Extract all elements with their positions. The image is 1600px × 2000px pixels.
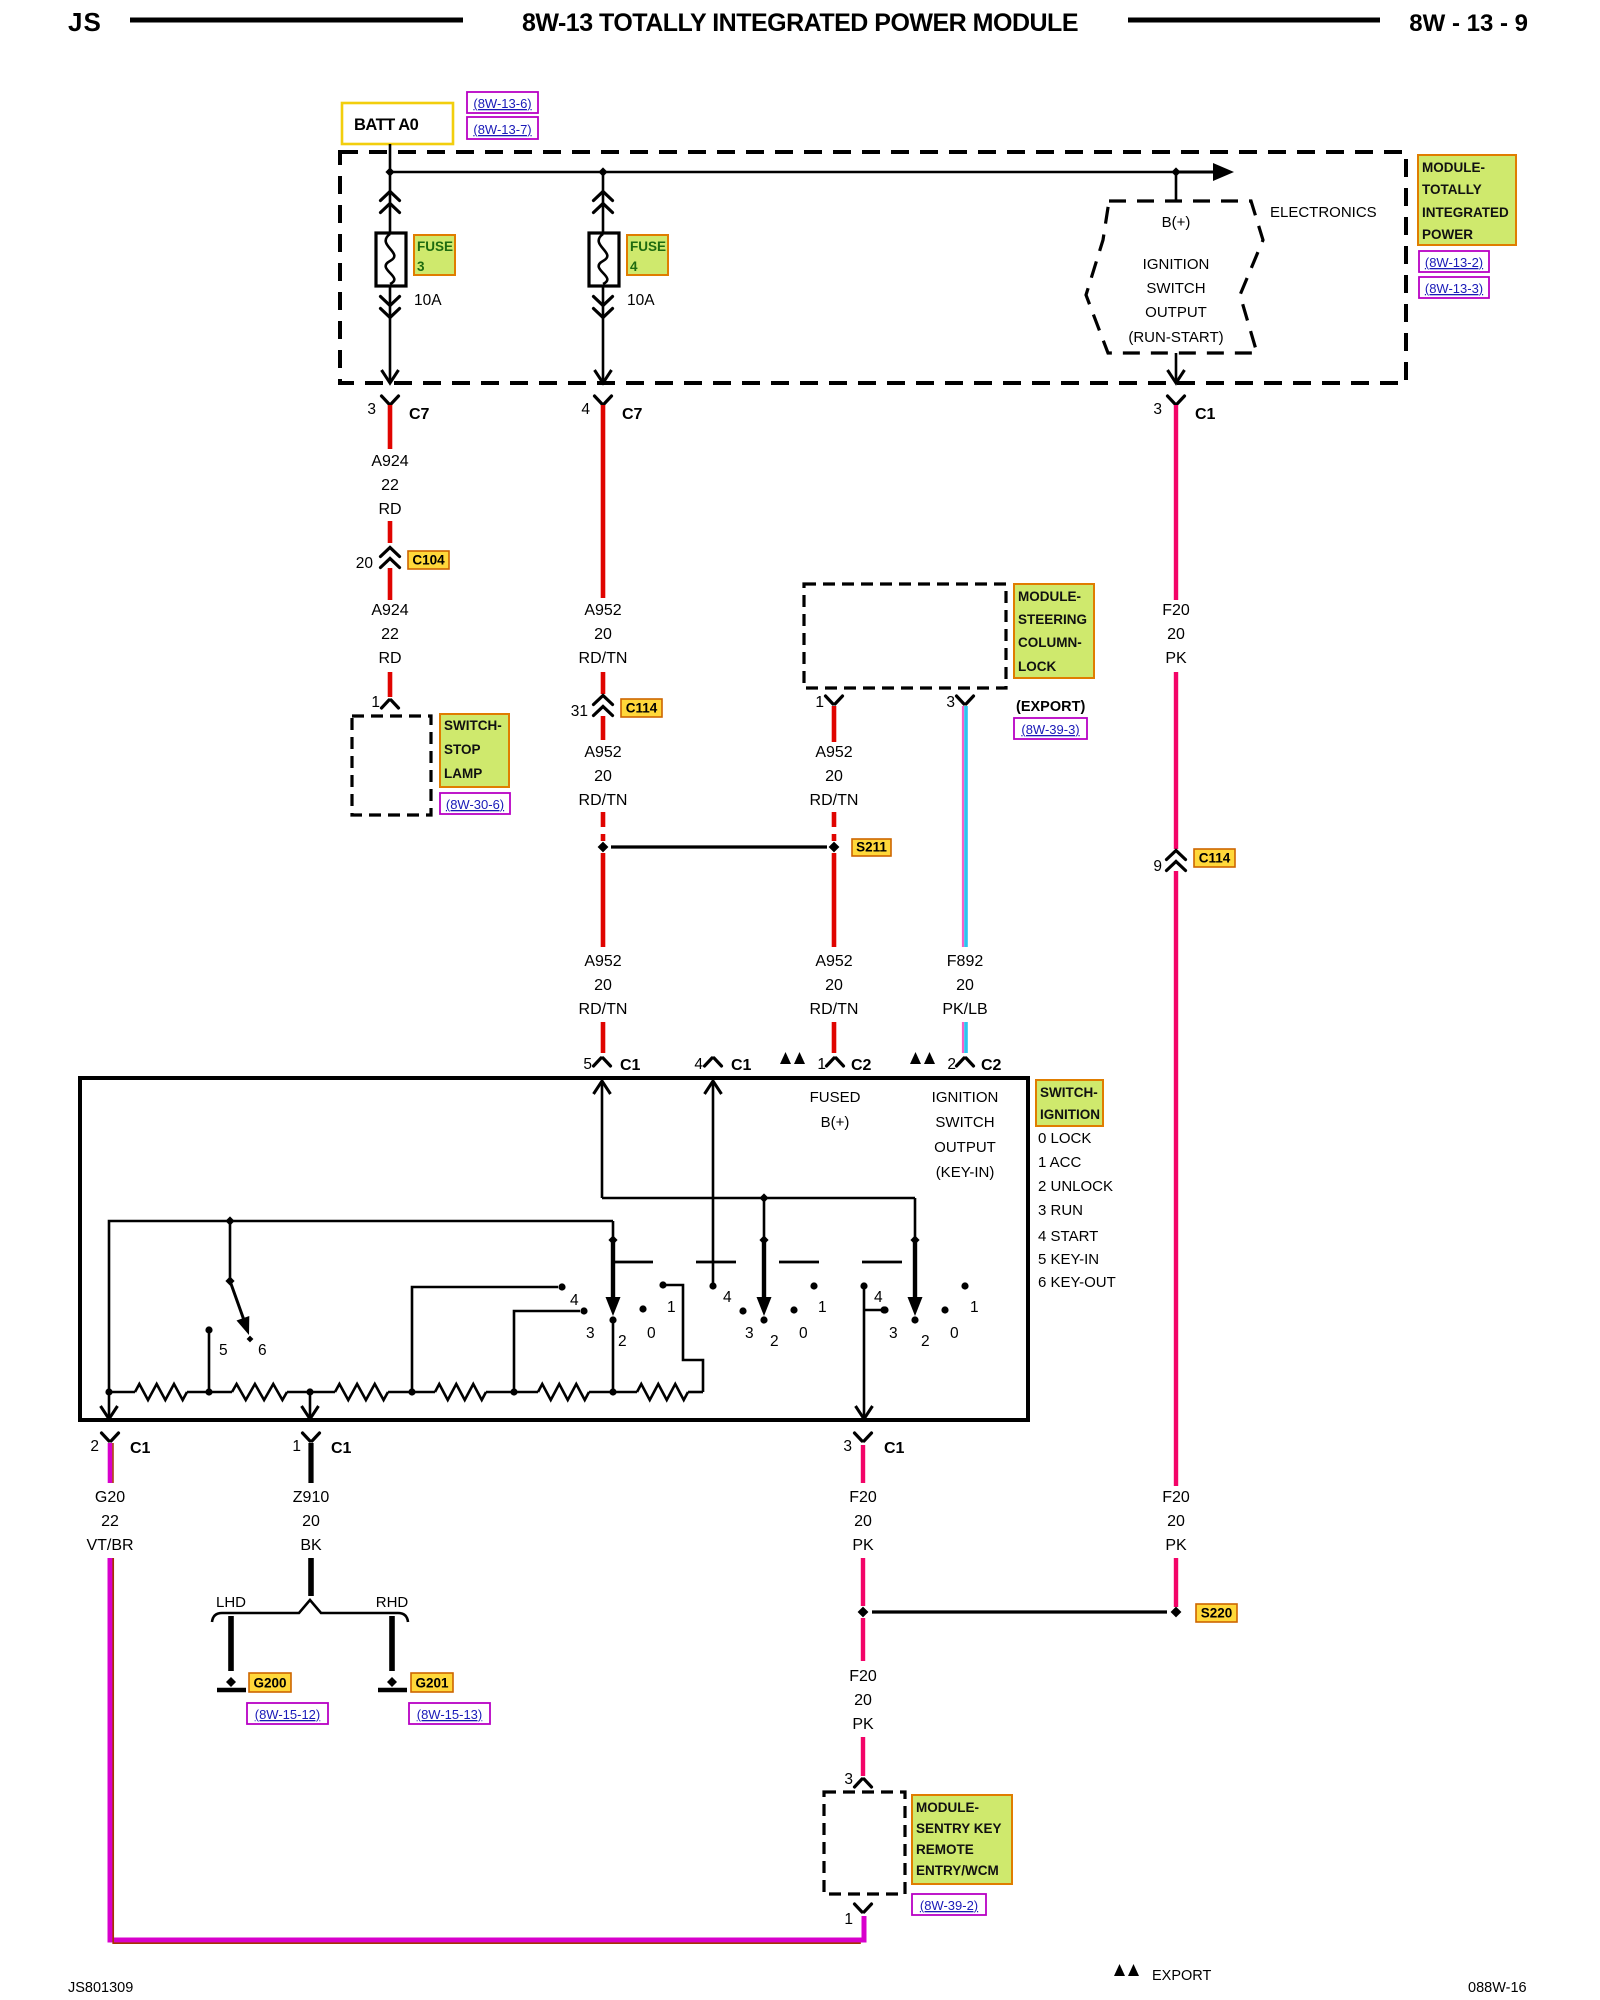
connector chevrons below fuse 3 [381, 297, 400, 306]
svg-text:088W-16: 088W-16 [1468, 1980, 1527, 1996]
svg-text:1: 1 [371, 694, 380, 711]
svg-text:0: 0 [647, 1325, 656, 1342]
svg-text:1: 1 [667, 1299, 676, 1316]
node chain junctions [105, 1388, 112, 1395]
svg-text:2: 2 [947, 1056, 956, 1073]
wire A952 steering to S211 [832, 812, 837, 827]
svg-text:BATT A0: BATT A0 [354, 116, 419, 134]
wire F892 20 PK/LB [962, 706, 964, 947]
svg-text:POWER: POWER [1422, 227, 1473, 242]
wire BATT A0 feed into TIPM [389, 144, 392, 172]
svg-text:FUSED: FUSED [810, 1089, 861, 1106]
svg-text:6 KEY-OUT: 6 KEY-OUT [1038, 1274, 1116, 1291]
splice S211 [598, 842, 609, 853]
svg-text:F20: F20 [1162, 602, 1190, 619]
svg-text:22: 22 [381, 477, 399, 494]
svg-text:Z910: Z910 [293, 1489, 330, 1506]
svg-text:3: 3 [586, 1325, 595, 1342]
wire fuse 3 to C7 pin 3 [389, 286, 392, 381]
svg-text:ENTRY/WCM: ENTRY/WCM [916, 1863, 999, 1878]
svg-text:3: 3 [843, 1438, 852, 1455]
wire pin4 to start contact [712, 1082, 715, 1286]
svg-text:C1: C1 [731, 1057, 752, 1074]
link 8W-15-13 [409, 1703, 490, 1724]
wire A952 below C114 [601, 716, 606, 740]
svg-text:1: 1 [970, 1299, 979, 1316]
svg-text:20: 20 [594, 977, 612, 994]
svg-text:SWITCH-: SWITCH- [1040, 1085, 1098, 1100]
svg-text:4: 4 [723, 1289, 732, 1306]
svg-text:COLUMN-: COLUMN- [1018, 635, 1082, 650]
svg-text:F20: F20 [1162, 1489, 1190, 1506]
ground G200 [226, 1677, 236, 1687]
svg-text:3: 3 [946, 694, 955, 711]
svg-text:(8W-13-2): (8W-13-2) [1425, 255, 1483, 270]
svg-text:C1: C1 [1195, 406, 1216, 423]
svg-text:RD/TN: RD/TN [810, 792, 859, 809]
module TIPM dashed outline [340, 152, 1406, 383]
module sentry key dashed outline [824, 1792, 905, 1894]
svg-text:C1: C1 [130, 1440, 151, 1457]
wire F20 stub below C1 pin 3 [861, 1445, 865, 1483]
svg-text:10A: 10A [627, 292, 655, 309]
svg-text:1 ACC: 1 ACC [1038, 1154, 1082, 1171]
wire bus to fuse 4 [602, 172, 605, 233]
wire G20 stub [108, 1443, 113, 1483]
svg-text:4: 4 [694, 1056, 703, 1073]
switch bank 1 contact 3 [514, 1311, 580, 1392]
svg-text:1: 1 [292, 1438, 301, 1455]
svg-text:PK/LB: PK/LB [942, 1001, 987, 1018]
svg-text:A952: A952 [584, 953, 621, 970]
svg-text:RD: RD [378, 650, 401, 667]
svg-text:G201: G201 [415, 1676, 449, 1691]
fuse F4 [589, 233, 619, 286]
svg-text:20: 20 [825, 768, 843, 785]
wire F20 20 PK from TIPM C1 pin 3 [1174, 405, 1178, 600]
svg-text:VT/BR: VT/BR [86, 1537, 133, 1554]
label FUSE 4 [627, 235, 668, 275]
svg-text:C2: C2 [981, 1057, 1002, 1074]
svg-text:20: 20 [594, 768, 612, 785]
svg-text:A952: A952 [584, 744, 621, 761]
wire Z910 down to split [308, 1558, 314, 1596]
svg-text:A952: A952 [815, 953, 852, 970]
resistor R3 [335, 1384, 388, 1400]
svg-text:10A: 10A [414, 292, 442, 309]
svg-text:A924: A924 [371, 453, 408, 470]
resistor R6 [637, 1384, 688, 1400]
wire F20 to splice S220 [861, 1558, 865, 1606]
switch bank 1 contact 4 [412, 1287, 558, 1392]
wire RHD ground leg [389, 1616, 395, 1671]
svg-text:STEERING: STEERING [1018, 612, 1087, 627]
connector ignition switch C2 pin 2 [910, 1052, 921, 1064]
wire A952 above C2 pin 1 [832, 1022, 837, 1053]
wire A952 to splice S211 [601, 812, 606, 827]
resistor R4 [435, 1384, 486, 1400]
svg-text:JS801309: JS801309 [68, 1980, 133, 1996]
wire LHD ground leg [228, 1616, 234, 1671]
svg-text:EXPORT: EXPORT [1152, 1968, 1212, 1984]
svg-text:20: 20 [594, 626, 612, 643]
wire F20 stub to S220 right [1174, 1558, 1178, 1607]
label MODULE-STEERING COLUMN-LOCK [1014, 584, 1094, 678]
switch bank 3 contact 4 [860, 1282, 867, 1289]
switch bank 2 contact 3 [739, 1307, 746, 1314]
module TIPM label [1418, 155, 1516, 245]
svg-text:(KEY-IN): (KEY-IN) [936, 1164, 995, 1181]
header rule right [1128, 18, 1380, 23]
svg-text:2 UNLOCK: 2 UNLOCK [1038, 1178, 1113, 1195]
label FUSE 3 [414, 235, 455, 275]
link 8W-13-3 [1419, 277, 1489, 298]
svg-text:(8W-15-13): (8W-15-13) [417, 1707, 483, 1722]
module steering column lock dashed outline [804, 584, 1006, 688]
connector chevrons above fuse 3 [381, 192, 400, 201]
svg-text:8W-13 TOTALLY INTEGRATED POWER: 8W-13 TOTALLY INTEGRATED POWER MODULE [522, 9, 1078, 37]
switch stop lamp dashed outline [352, 716, 431, 815]
link 8W-39-2 [912, 1894, 986, 1915]
svg-text:PK: PK [852, 1537, 874, 1554]
connector ignition switch C2 pin 1 [780, 1052, 791, 1064]
label SWITCH-STOP LAMP [440, 714, 509, 787]
svg-text:(8W-13-7): (8W-13-7) [473, 122, 531, 137]
key-in switch contact 5 [208, 1332, 211, 1392]
resistor chain rail [109, 1391, 135, 1394]
svg-text:20: 20 [825, 977, 843, 994]
svg-text:REMOTE: REMOTE [916, 1842, 974, 1857]
connector chevrons below fuse 4 [594, 297, 613, 306]
svg-text:(8W-13-6): (8W-13-6) [473, 96, 531, 111]
wire G20 long run to sentry key module [110, 1558, 864, 1940]
svg-text:F20: F20 [849, 1668, 877, 1685]
svg-text:PK: PK [852, 1716, 874, 1733]
svg-text:20: 20 [356, 555, 374, 572]
svg-text:C2: C2 [851, 1057, 872, 1074]
link 8W-15-12 [247, 1703, 328, 1724]
svg-text:RD/TN: RD/TN [579, 1001, 628, 1018]
svg-text:B(+): B(+) [821, 1114, 850, 1131]
switch bank 3 contact 3 [881, 1306, 888, 1313]
connector C114 inline pin 9 [1167, 851, 1186, 860]
resistor R5 [538, 1384, 589, 1400]
label SWITCH-IGNITION [1036, 1080, 1103, 1126]
header rule left [130, 18, 463, 23]
svg-text:C1: C1 [331, 1440, 352, 1457]
wire ignition common rail [109, 1221, 613, 1392]
svg-text:PK: PK [1165, 650, 1187, 667]
svg-text:LOCK: LOCK [1018, 659, 1056, 674]
svg-text:1: 1 [815, 694, 824, 711]
svg-text:4: 4 [630, 259, 638, 274]
wire bank1 contact 1 to resistor chain [663, 1285, 703, 1392]
wire A952 above C114 [601, 672, 606, 694]
svg-text:1: 1 [818, 1299, 827, 1316]
svg-text:(8W-15-12): (8W-15-12) [255, 1707, 321, 1722]
svg-text:20: 20 [302, 1513, 320, 1530]
wire F20 long segment to S220 [1174, 871, 1178, 1486]
wire bus to fuse 3 [389, 172, 392, 233]
switch bank 1 blade [612, 1221, 615, 1238]
svg-text:(8W-30-6): (8W-30-6) [446, 797, 504, 812]
svg-text:C104: C104 [412, 553, 445, 568]
wire output pin 1 C1 [309, 1392, 312, 1417]
wire F892 above C2 pin 2 [962, 1022, 964, 1053]
switch bank 3 contact 1 [961, 1282, 968, 1289]
svg-text:TOTALLY: TOTALLY [1422, 182, 1482, 197]
node key-in rail junction [759, 1193, 768, 1202]
svg-text:ELECTRONICS: ELECTRONICS [1270, 204, 1377, 221]
svg-text:B(+): B(+) [1162, 214, 1191, 231]
svg-text:SENTRY KEY: SENTRY KEY [916, 1821, 1002, 1836]
svg-text:3: 3 [889, 1325, 898, 1342]
bus arrow to electronics feed [1176, 171, 1214, 174]
svg-text:20: 20 [854, 1692, 872, 1709]
svg-text:OUTPUT: OUTPUT [1145, 304, 1207, 321]
node common rail junction key switch [225, 1216, 234, 1225]
svg-text:(8W-39-3): (8W-39-3) [1021, 722, 1079, 737]
svg-text:F892: F892 [947, 953, 984, 970]
svg-text:S220: S220 [1201, 1606, 1233, 1621]
svg-text:INTEGRATED: INTEGRATED [1422, 205, 1509, 220]
wire bus to electronics block [1175, 172, 1178, 200]
wire F20 long segment to C114 [1174, 672, 1178, 849]
resistor R2 [232, 1384, 287, 1400]
svg-text:G200: G200 [253, 1676, 286, 1691]
wire A924 below C104 [388, 568, 393, 600]
battery feed BATT A0 [342, 103, 453, 144]
svg-text:MODULE-: MODULE- [1018, 589, 1081, 604]
svg-text:4: 4 [581, 401, 590, 418]
svg-text:C114: C114 [1199, 851, 1231, 866]
svg-text:JS: JS [68, 7, 102, 37]
svg-text:IGNITION: IGNITION [932, 1089, 999, 1106]
wire A952 from C7 pin 4 [601, 405, 606, 598]
svg-text:STOP: STOP [444, 742, 481, 757]
svg-text:0 LOCK: 0 LOCK [1038, 1130, 1091, 1147]
node bus junction electronics [1171, 167, 1180, 176]
svg-text:BK: BK [300, 1537, 322, 1554]
switch bank 1 contact 1 [659, 1281, 666, 1288]
node bus junction fuse 4 [598, 167, 607, 176]
wire F20 below S220 [861, 1618, 865, 1661]
wire A924 22 RD upper segment [388, 405, 393, 449]
node bus junction fuse 3 [385, 167, 394, 176]
svg-text:IGNITION: IGNITION [1040, 1107, 1100, 1122]
svg-text:A952: A952 [815, 744, 852, 761]
link 8W-13-2 [1419, 251, 1489, 272]
svg-text:5 KEY-IN: 5 KEY-IN [1038, 1251, 1099, 1268]
svg-text:20: 20 [1167, 1513, 1185, 1530]
fuse F3 [376, 233, 406, 286]
switch bank 2 blade [763, 1198, 766, 1238]
wire key-in feed rail [602, 1197, 915, 1200]
switch bank 1 contact 0 [639, 1305, 646, 1312]
svg-text:3: 3 [844, 1771, 853, 1788]
svg-text:20: 20 [1167, 626, 1185, 643]
svg-text:S211: S211 [856, 840, 887, 855]
wire battery bus horizontal [390, 171, 1176, 174]
svg-text:5: 5 [219, 1342, 228, 1359]
svg-text:F20: F20 [849, 1489, 877, 1506]
wire electronics block to C1 pin 3 [1175, 353, 1178, 381]
svg-text:8W - 13 - 9: 8W - 13 - 9 [1409, 10, 1528, 37]
switch bank 2 contact 1 [810, 1282, 817, 1289]
svg-text:2: 2 [618, 1333, 627, 1350]
electronics ignition switch output block dashed outline [1086, 201, 1263, 353]
svg-text:(EXPORT): (EXPORT) [1016, 699, 1085, 715]
svg-text:9: 9 [1153, 858, 1162, 875]
svg-text:IGNITION: IGNITION [1143, 256, 1210, 273]
wire A952 S211 to C2 pin 1 [832, 853, 837, 947]
svg-text:3: 3 [1153, 401, 1162, 418]
svg-text:4: 4 [874, 1289, 883, 1306]
wire A924 to stop lamp switch [388, 672, 393, 697]
resistor R1 [135, 1384, 187, 1400]
svg-text:C1: C1 [884, 1440, 905, 1457]
svg-text:RHD: RHD [376, 1594, 409, 1611]
svg-text:1: 1 [844, 1911, 853, 1928]
svg-text:3: 3 [367, 401, 376, 418]
svg-text:G20: G20 [95, 1489, 125, 1506]
wire F20 to sentry key module [861, 1737, 865, 1776]
svg-text:20: 20 [956, 977, 974, 994]
wire A924 mid segment [388, 521, 393, 543]
svg-text:4: 4 [570, 1292, 579, 1309]
svg-text:RD/TN: RD/TN [810, 1001, 859, 1018]
svg-text:SWITCH-: SWITCH- [444, 718, 502, 733]
wire A952 below S211 to switch [601, 853, 606, 947]
svg-text:2: 2 [770, 1333, 779, 1350]
wire A952 from steering lock pin 1 [832, 706, 837, 742]
svg-text:22: 22 [381, 626, 399, 643]
wire A952 to ignition switch C1 pin 5 [601, 1022, 606, 1053]
switch bank 3 blade [914, 1198, 917, 1238]
svg-text:C114: C114 [626, 701, 658, 716]
LHD RHD split brace [212, 1600, 408, 1622]
link 8W-30-6 [440, 793, 510, 814]
svg-text:MODULE-: MODULE- [916, 1800, 979, 1815]
svg-text:SWITCH: SWITCH [1146, 280, 1205, 297]
link 8W-39-3 [1014, 718, 1087, 739]
svg-text:PK: PK [1165, 1537, 1187, 1554]
label MODULE-SENTRY KEY REMOTE ENTRY/WCM [912, 1795, 1012, 1884]
svg-text:SWITCH: SWITCH [935, 1114, 994, 1131]
svg-text:RD: RD [378, 501, 401, 518]
splice S220 [858, 1607, 869, 1618]
svg-text:(RUN-START): (RUN-START) [1128, 329, 1223, 346]
switch bank 3 contact 0 [941, 1306, 948, 1313]
svg-text:0: 0 [950, 1325, 959, 1342]
switch ignition box outline [80, 1078, 1028, 1420]
svg-text:22: 22 [101, 1513, 119, 1530]
wire output pin 2 C1 [108, 1392, 111, 1417]
ground G201 [387, 1677, 397, 1687]
svg-text:5: 5 [583, 1056, 592, 1073]
svg-text:2: 2 [921, 1333, 930, 1350]
svg-text:3: 3 [417, 259, 425, 274]
svg-text:RD/TN: RD/TN [579, 650, 628, 667]
svg-text:31: 31 [571, 703, 588, 720]
svg-text:MODULE-: MODULE- [1422, 160, 1485, 175]
svg-text:(8W-13-3): (8W-13-3) [1425, 281, 1483, 296]
svg-text:C7: C7 [409, 406, 430, 423]
connector C104 inline [381, 548, 400, 557]
svg-text:(8W-39-2): (8W-39-2) [920, 1898, 978, 1913]
switch bank 2 contact 0 [790, 1306, 797, 1313]
svg-text:20: 20 [854, 1513, 872, 1530]
svg-text:6: 6 [258, 1342, 267, 1359]
wire pin5 feed with up arrow [601, 1082, 604, 1198]
svg-text:FUSE: FUSE [630, 239, 666, 254]
wire fuse 4 to C7 pin 4 [602, 286, 605, 381]
svg-text:RD/TN: RD/TN [579, 792, 628, 809]
svg-text:3: 3 [745, 1325, 754, 1342]
svg-text:1: 1 [817, 1056, 826, 1073]
svg-text:3 RUN: 3 RUN [1038, 1202, 1083, 1219]
link 8W-13-7 [467, 117, 538, 139]
svg-text:0: 0 [799, 1325, 808, 1342]
svg-text:OUTPUT: OUTPUT [934, 1139, 996, 1156]
svg-text:4 START: 4 START [1038, 1228, 1098, 1245]
text export note [1114, 1964, 1125, 1976]
svg-text:2: 2 [90, 1438, 99, 1455]
connector C114 inline pin 31 [594, 696, 613, 705]
key-in switch blade [229, 1221, 232, 1279]
svg-text:C1: C1 [620, 1057, 641, 1074]
connector chevrons above fuse 4 [594, 192, 613, 201]
svg-text:LHD: LHD [216, 1594, 246, 1611]
svg-text:A924: A924 [371, 602, 408, 619]
link 8W-13-6 [467, 92, 538, 113]
dashed gang line [613, 1261, 904, 1264]
wire run-start output to C1 pin 3 [863, 1286, 866, 1417]
svg-text:C7: C7 [622, 406, 643, 423]
wire Z910 stub [308, 1443, 313, 1483]
svg-text:LAMP: LAMP [444, 766, 482, 781]
svg-text:FUSE: FUSE [417, 239, 453, 254]
svg-text:A952: A952 [584, 602, 621, 619]
